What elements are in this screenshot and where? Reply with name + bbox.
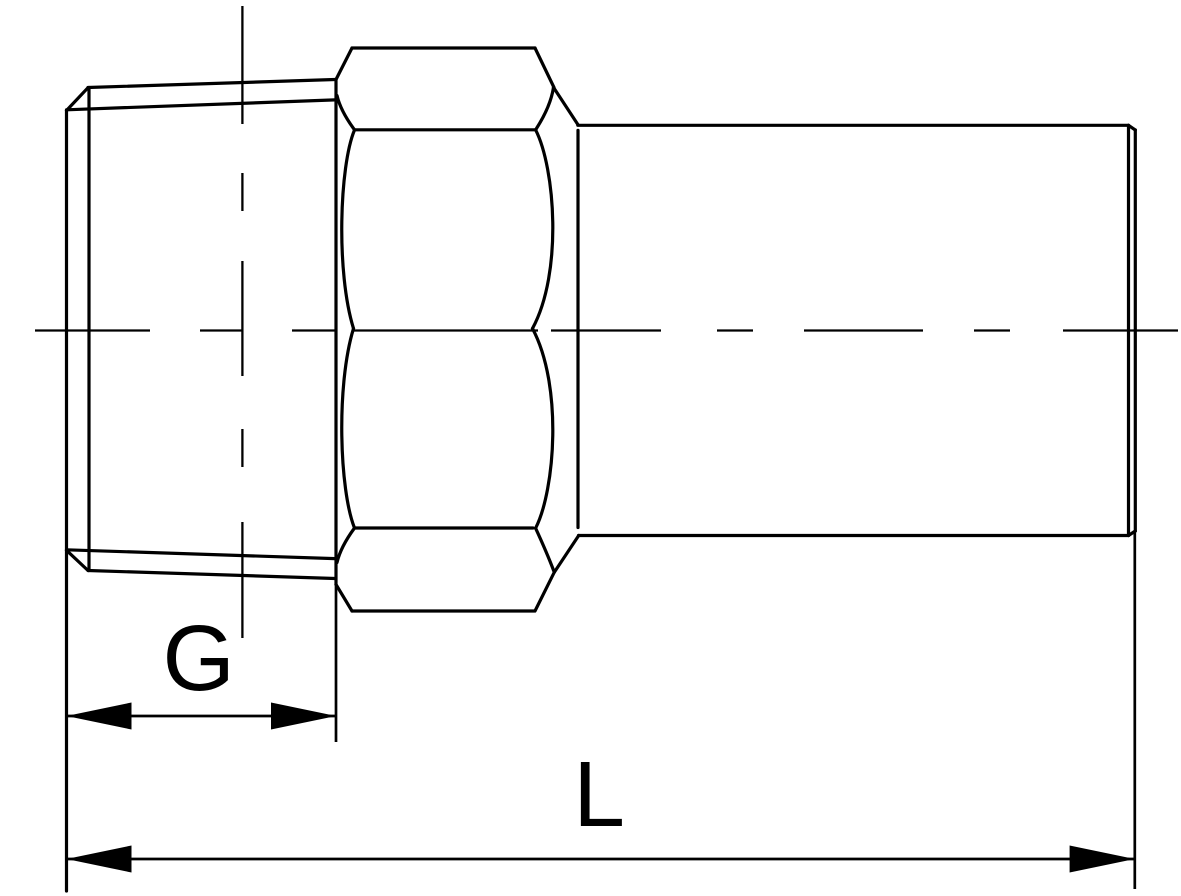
svg-text:L: L — [573, 742, 625, 846]
svg-text:G: G — [163, 606, 235, 710]
